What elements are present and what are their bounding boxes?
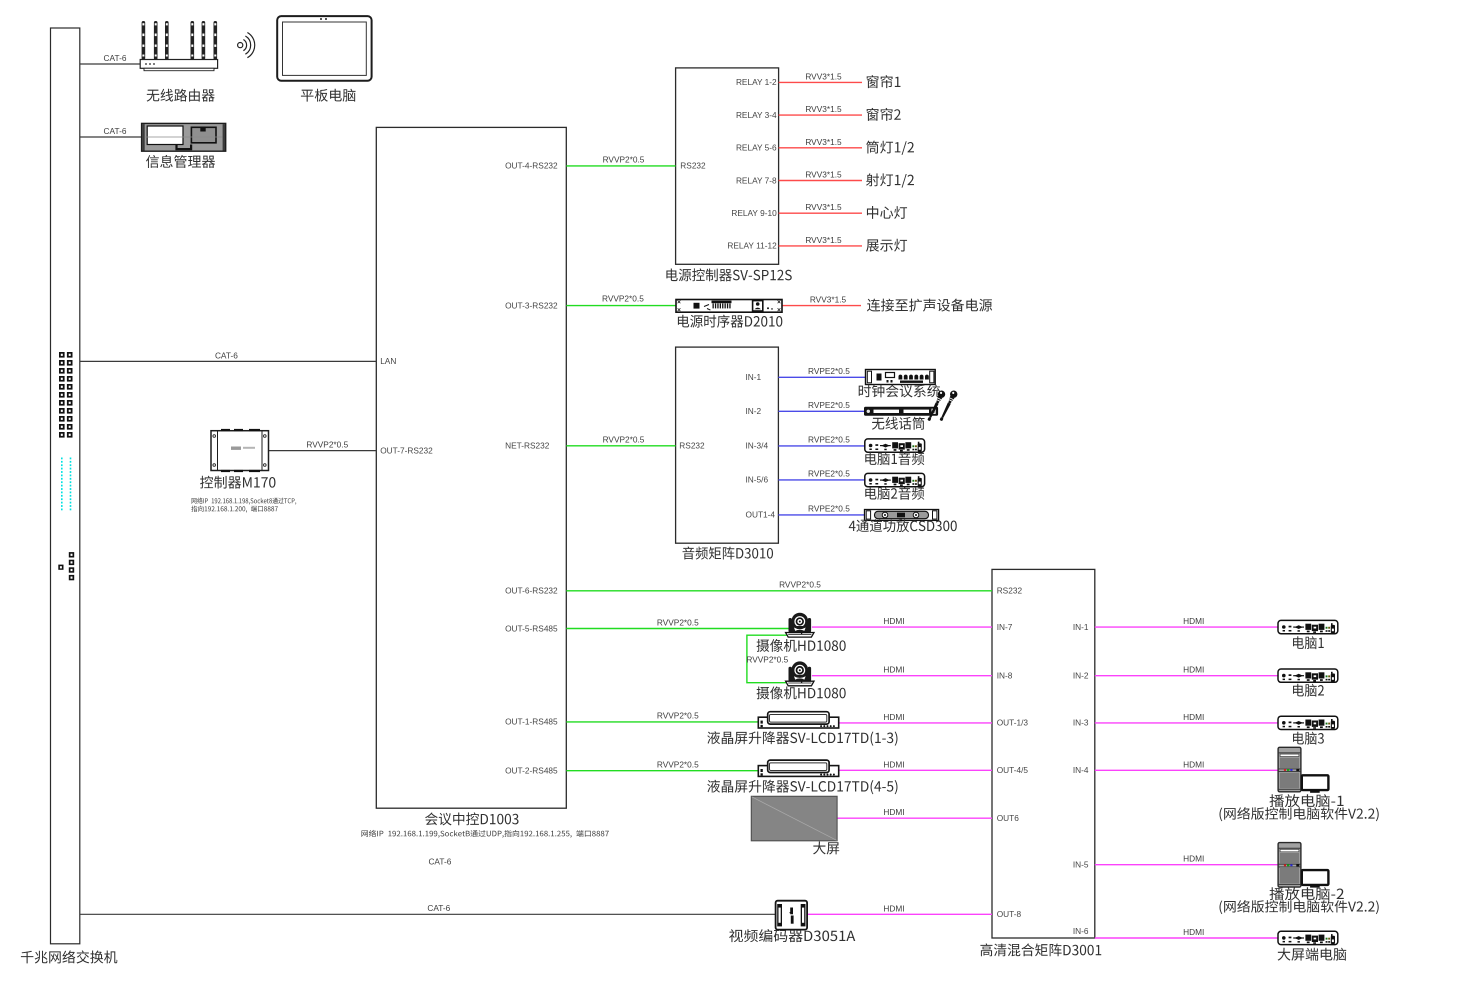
label RVVP2*0.5 (OUT-2 wire): [657, 760, 699, 770]
D3001 port RS232: [997, 586, 1023, 596]
label CAT-6 (LAN wire): [215, 350, 238, 360]
device info manager 信息管理器: [142, 123, 226, 151]
wire red RELAY 5-6: [779, 147, 862, 149]
svg-text:RELAY 1-2: RELAY 1-2: [736, 77, 777, 87]
svg-text:RVV3*1.5: RVV3*1.5: [805, 71, 842, 81]
svg-text:RELAY 3-4: RELAY 3-4: [736, 110, 777, 120]
svg-text:RVVP2*0.5: RVVP2*0.5: [657, 760, 699, 770]
device 电脑1: [1278, 620, 1338, 633]
label RVV3*1.5 (D2010 wire): [810, 294, 847, 304]
device LCD lifter 2 液晶屏升降器SV-LCD17TD(4-5): [758, 760, 838, 776]
svg-text:OUT-4-RS232: OUT-4-RS232: [505, 161, 558, 171]
switch cyan indicator dots: [61, 458, 71, 511]
wire HDMI encoder to D3001 OUT-8: [806, 913, 992, 915]
svg-text:RVV3*1.5: RVV3*1.5: [805, 104, 842, 114]
D1003 port OUT-6-RS232: [505, 586, 558, 596]
wire red RELAY 1-2: [779, 81, 862, 83]
svg-text:RVPE2*0.5: RVPE2*0.5: [808, 435, 850, 445]
wire HDMI D3001 IN-6 to computer: [1095, 937, 1278, 939]
wire HDMI D3001 IN-2 to computer: [1095, 675, 1278, 677]
label 摄像机HD1080 (2): [757, 686, 846, 699]
svg-text:RVVP2*0.5: RVVP2*0.5: [657, 617, 699, 627]
wire HDMI camera2 to D3001 IN-8: [812, 675, 992, 677]
wire blue audio y=377.3: [778, 376, 865, 378]
wire HDMI D3001 OUT-4/5 to lifter2: [839, 769, 992, 771]
svg-text:OUT-2-RS485: OUT-2-RS485: [505, 766, 558, 776]
label 无线话筒: [872, 417, 925, 430]
device tablet 平板电脑: [277, 16, 371, 81]
svg-text:CAT-6: CAT-6: [104, 53, 127, 63]
label RVPE2*0.5 y=479.9: [808, 469, 850, 479]
device 电脑1音频 interface: [865, 439, 925, 452]
label 高清混合矩阵D3001: [980, 943, 1101, 956]
svg-text:RS232: RS232: [679, 441, 705, 451]
svg-text:RVV3*1.5: RVV3*1.5: [810, 294, 847, 304]
svg-text:HDMI: HDMI: [883, 807, 904, 817]
wire green D1003 OUT-3 to D2010: [566, 305, 676, 307]
label 电脑1: [1293, 636, 1324, 649]
wire blue audio y=514.9: [778, 514, 865, 516]
label RVV3*1.5 (relay 5): [805, 202, 842, 212]
svg-text:CAT-6: CAT-6: [427, 903, 450, 913]
label CAT-6 (encoder wire): [427, 903, 450, 913]
label 电源控制器SV-SP12S: [666, 268, 791, 281]
svg-text:OUT6: OUT6: [997, 813, 1020, 823]
label HDMI (right IN-6): [1183, 927, 1204, 937]
D3001 port IN-4 (right): [1073, 765, 1089, 775]
svg-text:IN-1: IN-1: [746, 372, 762, 382]
svg-text:OUT-4/5: OUT-4/5: [997, 765, 1029, 775]
label RVVP2*0.5 (camera 2 branch): [746, 654, 788, 664]
label RVPE2*0.5 y=514.9: [808, 504, 850, 514]
svg-text:RVVP2*0.5: RVVP2*0.5: [746, 654, 788, 664]
label RVVP2*0.5 (OUT-4 wire): [603, 155, 645, 165]
label 播放电脑-1: [1270, 794, 1344, 807]
wire CAT-6 switch to info manager: [80, 136, 143, 138]
label 播放电脑-2: [1270, 887, 1344, 900]
label HDMI (OUT-4/5): [883, 759, 904, 769]
svg-text:RELAY 11-12: RELAY 11-12: [727, 241, 777, 251]
device 4-channel amplifier 4通道功放CSD300: [865, 510, 939, 521]
device playback PC tower 播放电脑-2: [1278, 843, 1301, 888]
label 会议中控D1003: [425, 812, 518, 825]
device LCD lifter 1 液晶屏升降器SV-LCD17TD(1-3): [758, 712, 838, 728]
label HDMI (right IN-2): [1183, 665, 1204, 675]
label HDMI (right IN-5): [1183, 854, 1204, 864]
svg-text:RVVP2*0.5: RVVP2*0.5: [779, 580, 821, 590]
svg-text:CAT-6: CAT-6: [428, 857, 451, 867]
svg-text:RVV3*1.5: RVV3*1.5: [805, 235, 842, 245]
label RVVP2*0.5 (OUT-3 wire): [602, 294, 644, 304]
D1003 port NET-RS232: [505, 441, 550, 451]
label HDMI (right IN-1): [1183, 616, 1204, 626]
wire CAT-6 switch to D1003 LAN: [80, 360, 377, 362]
label HDMI (right IN-3): [1183, 712, 1204, 722]
svg-text:HDMI: HDMI: [1183, 665, 1204, 675]
D1003 port OUT-1-RS485: [505, 717, 558, 727]
svg-text:OUT-1/3: OUT-1/3: [997, 718, 1029, 728]
label RVVP2*0.5 (M170 wire): [306, 440, 348, 450]
label RVV3*1.5 (relay 3): [805, 137, 842, 147]
svg-text:IN-5: IN-5: [1073, 860, 1089, 870]
svg-text:RVVP2*0.5: RVVP2*0.5: [603, 435, 645, 445]
label RVVP2*0.5 (OUT-1 wire): [657, 711, 699, 721]
svg-text:HDMI: HDMI: [883, 616, 904, 626]
D3001 port IN-8: [997, 671, 1013, 681]
device clock conference system 时钟会议系统: [866, 370, 936, 385]
power controller 电源控制器SV-SP12S box: [676, 68, 779, 264]
device playback PC monitor 1: [1302, 775, 1329, 793]
label HDMI (IN-8): [883, 665, 904, 675]
icon two wireless microphones: [925, 389, 958, 422]
device 电脑2: [1278, 669, 1338, 682]
svg-text:NET-RS232: NET-RS232: [505, 441, 550, 451]
device 电脑3: [1278, 716, 1338, 729]
svg-text:OUT-8: OUT-8: [997, 909, 1022, 919]
D3001 port OUT-4/5: [997, 765, 1029, 775]
wire green D1003 OUT-4 to SP12S RS232: [566, 165, 675, 167]
svg-text:RVPE2*0.5: RVPE2*0.5: [808, 366, 850, 376]
label 电脑1音频: [865, 452, 924, 465]
wire CAT-6 switch to wireless router: [80, 63, 141, 65]
load label 窗帘1: [867, 75, 901, 88]
svg-text:OUT-6-RS232: OUT-6-RS232: [505, 586, 558, 596]
wire HDMI D3001 IN-5 to computer: [1095, 864, 1278, 866]
label 4通道功放CSD300: [849, 519, 957, 532]
D3001 port OUT-8: [997, 909, 1022, 919]
SP12S port RELAY 3-4: [736, 110, 777, 120]
label M170 IP line2: [191, 506, 278, 513]
device power sequencer 电源时序器D2010: [676, 300, 782, 313]
svg-text:HDMI: HDMI: [883, 712, 904, 722]
D1003 port OUT-4-RS232: [505, 161, 558, 171]
svg-text:HDMI: HDMI: [883, 759, 904, 769]
wire HDMI D3001 IN-3 to computer: [1095, 722, 1278, 724]
D1003 port OUT-7-RS232: [380, 445, 433, 455]
D3010 port IN-3/4: [746, 441, 769, 451]
label 液晶屏升降器SV-LCD17TD(4-5): [707, 780, 897, 795]
label M170 IP line1: [192, 497, 297, 504]
svg-text:RVV3*1.5: RVV3*1.5: [805, 170, 842, 180]
SP12S port RS232: [680, 161, 706, 171]
svg-text:OUT-7-RS232: OUT-7-RS232: [380, 445, 433, 455]
D3001 port OUT6: [997, 813, 1020, 823]
label 控制器M170: [200, 476, 275, 489]
label HDMI (OUT-8): [883, 903, 904, 913]
label HDMI (right IN-4): [1183, 759, 1204, 769]
label RVV3*1.5 (relay 4): [805, 170, 842, 180]
device 大屏端电脑: [1278, 931, 1338, 944]
SP12S port RELAY 9-10: [731, 208, 777, 218]
wire HDMI D3001 IN-1 to computer: [1095, 626, 1278, 628]
svg-text:IN-4: IN-4: [1073, 765, 1089, 775]
wire HDMI camera1 to D3001 IN-7: [812, 626, 992, 628]
svg-text:HDMI: HDMI: [1183, 712, 1204, 722]
switch port LEDs block: [59, 352, 73, 438]
svg-text:HDMI: HDMI: [1183, 759, 1204, 769]
SP12S port RELAY 1-2: [736, 77, 777, 87]
wire green D1003 OUT-2 to lifter 2: [566, 770, 758, 772]
D3010 port OUT1-4: [746, 510, 776, 520]
svg-text:RVV3*1.5: RVV3*1.5: [805, 202, 842, 212]
svg-text:IN-8: IN-8: [997, 671, 1013, 681]
svg-text:OUT-1-RS485: OUT-1-RS485: [505, 717, 558, 727]
wire red RELAY 11-12: [779, 245, 862, 247]
label 连接至扩声设备电源: [867, 299, 992, 312]
label RVPE2*0.5 y=377.3: [808, 366, 850, 376]
load label 中心灯: [867, 206, 907, 219]
label 平板电脑: [301, 89, 356, 102]
device camera 2 摄像机HD1080: [786, 661, 814, 685]
svg-text:HDMI: HDMI: [1183, 854, 1204, 864]
device controller M170 控制器M170: [211, 429, 269, 472]
device wireless router 无线路由器: [140, 21, 217, 71]
svg-text:HDMI: HDMI: [883, 903, 904, 913]
D3010 port IN-5/6: [746, 475, 769, 485]
label 千兆网络交换机: [21, 950, 117, 963]
svg-text:RVV3*1.5: RVV3*1.5: [805, 137, 842, 147]
svg-text:RVPE2*0.5: RVPE2*0.5: [808, 400, 850, 410]
network switch 千兆网络交换机 chassis: [51, 28, 80, 944]
svg-text:CAT-6: CAT-6: [104, 126, 127, 136]
label 无线路由器: [147, 89, 215, 102]
SP12S port RELAY 7-8: [736, 175, 777, 185]
device camera 1 摄像机HD1080: [786, 613, 814, 637]
svg-text:IN-1: IN-1: [1073, 622, 1089, 632]
D3001 port OUT-1/3: [997, 718, 1029, 728]
svg-text:IN-6: IN-6: [1073, 926, 1089, 936]
svg-text:IN-3/4: IN-3/4: [746, 441, 769, 451]
svg-text:CAT-6: CAT-6: [215, 350, 238, 360]
label 电脑2: [1293, 684, 1324, 697]
svg-text:RVVP2*0.5: RVVP2*0.5: [602, 294, 644, 304]
audio matrix 音频矩阵D3010 box: [676, 347, 779, 543]
svg-text:RVVP2*0.5: RVVP2*0.5: [657, 711, 699, 721]
D3001 port IN-2 (right): [1073, 671, 1089, 681]
device playback PC monitor 2: [1302, 870, 1329, 888]
label 大屏: [813, 842, 839, 855]
svg-text:OUT-3-RS232: OUT-3-RS232: [505, 300, 558, 310]
label CAT-6 (router wire): [104, 53, 127, 63]
svg-text:RVPE2*0.5: RVPE2*0.5: [808, 469, 850, 479]
device big screen 大屏: [751, 796, 837, 841]
load label 射灯1/2: [866, 173, 914, 187]
wire red D2010 to speaker power: [782, 305, 861, 307]
load label 筒灯1/2: [866, 141, 914, 155]
label 大屏端电脑: [1278, 948, 1347, 961]
label (网络版控制电脑软件V2.2) line1: [1219, 807, 1378, 821]
label 音频矩阵D3010: [683, 547, 773, 560]
wire red RELAY 9-10: [779, 212, 862, 214]
icon wifi signal: [238, 33, 255, 58]
wire HDMI D3001 OUT6 to big screen: [837, 817, 992, 819]
label 电脑3: [1293, 732, 1324, 745]
load label 窗帘2: [867, 108, 901, 121]
svg-text:RS232: RS232: [680, 161, 706, 171]
label HDMI (OUT-1/3): [883, 712, 904, 722]
svg-text:LAN: LAN: [380, 356, 396, 366]
wire green D1003 OUT-1 to lifter 1: [566, 721, 758, 723]
wire green camera1 to camera 2 daisy chain: [747, 635, 790, 683]
wire CAT-6 switch to video encoder: [80, 913, 777, 915]
wire green D1003 OUT-5 to camera 1: [566, 628, 789, 630]
label 信息管理器: [146, 155, 215, 168]
device 电脑2音频 interface: [865, 473, 925, 486]
label RVV3*1.5 (relay 6): [805, 235, 842, 245]
svg-text:RELAY 5-6: RELAY 5-6: [736, 143, 777, 153]
D3010 port RS232: [679, 441, 705, 451]
svg-text:HDMI: HDMI: [883, 665, 904, 675]
svg-text:RS232: RS232: [997, 586, 1023, 596]
D3001 port IN-5 (right): [1073, 860, 1089, 870]
label 电脑2音频: [865, 487, 924, 500]
D3010 port IN-2: [746, 406, 762, 416]
HD mixed matrix 高清混合矩阵D3001 box: [992, 569, 1095, 938]
svg-text:RELAY 9-10: RELAY 9-10: [731, 208, 777, 218]
D3001 port IN-7: [997, 622, 1013, 632]
switch lower port group: [58, 552, 74, 580]
device video encoder 视频编码器D3051A: [776, 901, 808, 930]
central controller 会议中控D1003 box: [376, 127, 566, 808]
D1003 port OUT-5-RS485: [505, 623, 558, 633]
D3010 port IN-1: [746, 372, 762, 382]
wire HDMI D3001 OUT-1/3 to lifter1: [839, 722, 992, 724]
wire RS232 controller M170 to D1003 OUT-7: [269, 450, 377, 452]
wire blue audio y=479.9: [778, 479, 865, 481]
wire green D1003 NET-RS232 to D3010 RS232: [566, 445, 675, 447]
device playback PC tower 播放电脑-1: [1278, 747, 1301, 792]
label RVPE2*0.5 y=445.9: [808, 435, 850, 445]
svg-text:RVVP2*0.5: RVVP2*0.5: [306, 440, 348, 450]
wire red RELAY 7-8: [779, 180, 862, 182]
label D1003 IP line: [361, 830, 608, 838]
label RVVP2*0.5 (OUT-5 wire): [657, 617, 699, 627]
label HDMI (OUT6): [883, 807, 904, 817]
label 电源时序器D2010: [678, 315, 782, 328]
SP12S port RELAY 5-6: [736, 143, 777, 153]
wire blue audio y=445.9: [778, 445, 865, 447]
device wireless mic receiver 无线话筒: [865, 407, 938, 415]
D1003 port OUT-3-RS232: [505, 300, 558, 310]
svg-text:IN-5/6: IN-5/6: [746, 475, 769, 485]
wire green D1003 OUT-6 to D3001 RS232: [566, 590, 992, 592]
load label 展示灯: [866, 239, 907, 252]
svg-text:RELAY 7-8: RELAY 7-8: [736, 175, 777, 185]
label RVPE2*0.5 y=411.3: [808, 400, 850, 410]
svg-text:IN-7: IN-7: [997, 622, 1013, 632]
label 视频编码器D3051A: [729, 929, 855, 942]
wire red RELAY 3-4: [779, 114, 862, 116]
D1003 port OUT-2-RS485: [505, 766, 558, 776]
wire blue audio y=411.3: [778, 410, 865, 412]
svg-text:OUT-5-RS485: OUT-5-RS485: [505, 623, 558, 633]
label (网络版控制电脑软件V2.2) line2: [1219, 900, 1378, 914]
wire HDMI D3001 IN-4 to computer: [1095, 769, 1278, 771]
label CAT-6 (floating): [428, 857, 451, 867]
svg-text:RVVP2*0.5: RVVP2*0.5: [603, 155, 645, 165]
label HDMI (IN-7): [883, 616, 904, 626]
SP12S port RELAY 11-12: [727, 241, 777, 251]
svg-text:IN-3: IN-3: [1073, 718, 1089, 728]
svg-text:HDMI: HDMI: [1183, 616, 1204, 626]
label CAT-6 (info manager wire): [104, 126, 127, 136]
svg-text:IN-2: IN-2: [1073, 671, 1089, 681]
label RVV3*1.5 (relay 2): [805, 104, 842, 114]
svg-text:OUT1-4: OUT1-4: [746, 510, 776, 520]
label 液晶屏升降器SV-LCD17TD(1-3): [707, 731, 897, 746]
svg-text:IN-2: IN-2: [746, 406, 762, 416]
label RVV3*1.5 (relay 1): [805, 71, 842, 81]
label RVVP2*0.5 (OUT-6 wire): [779, 580, 821, 590]
D3001 port IN-1 (right): [1073, 622, 1089, 632]
D1003 port LAN: [380, 356, 396, 366]
svg-text:HDMI: HDMI: [1183, 927, 1204, 937]
label 摄像机HD1080 (1): [757, 639, 846, 652]
label RVVP2*0.5 (NET wire): [603, 435, 645, 445]
label 时钟会议系统: [859, 384, 940, 397]
svg-text:RVPE2*0.5: RVPE2*0.5: [808, 504, 850, 514]
D3001 port IN-3 (right): [1073, 718, 1089, 728]
D3001 port IN-6 (right): [1073, 926, 1089, 936]
